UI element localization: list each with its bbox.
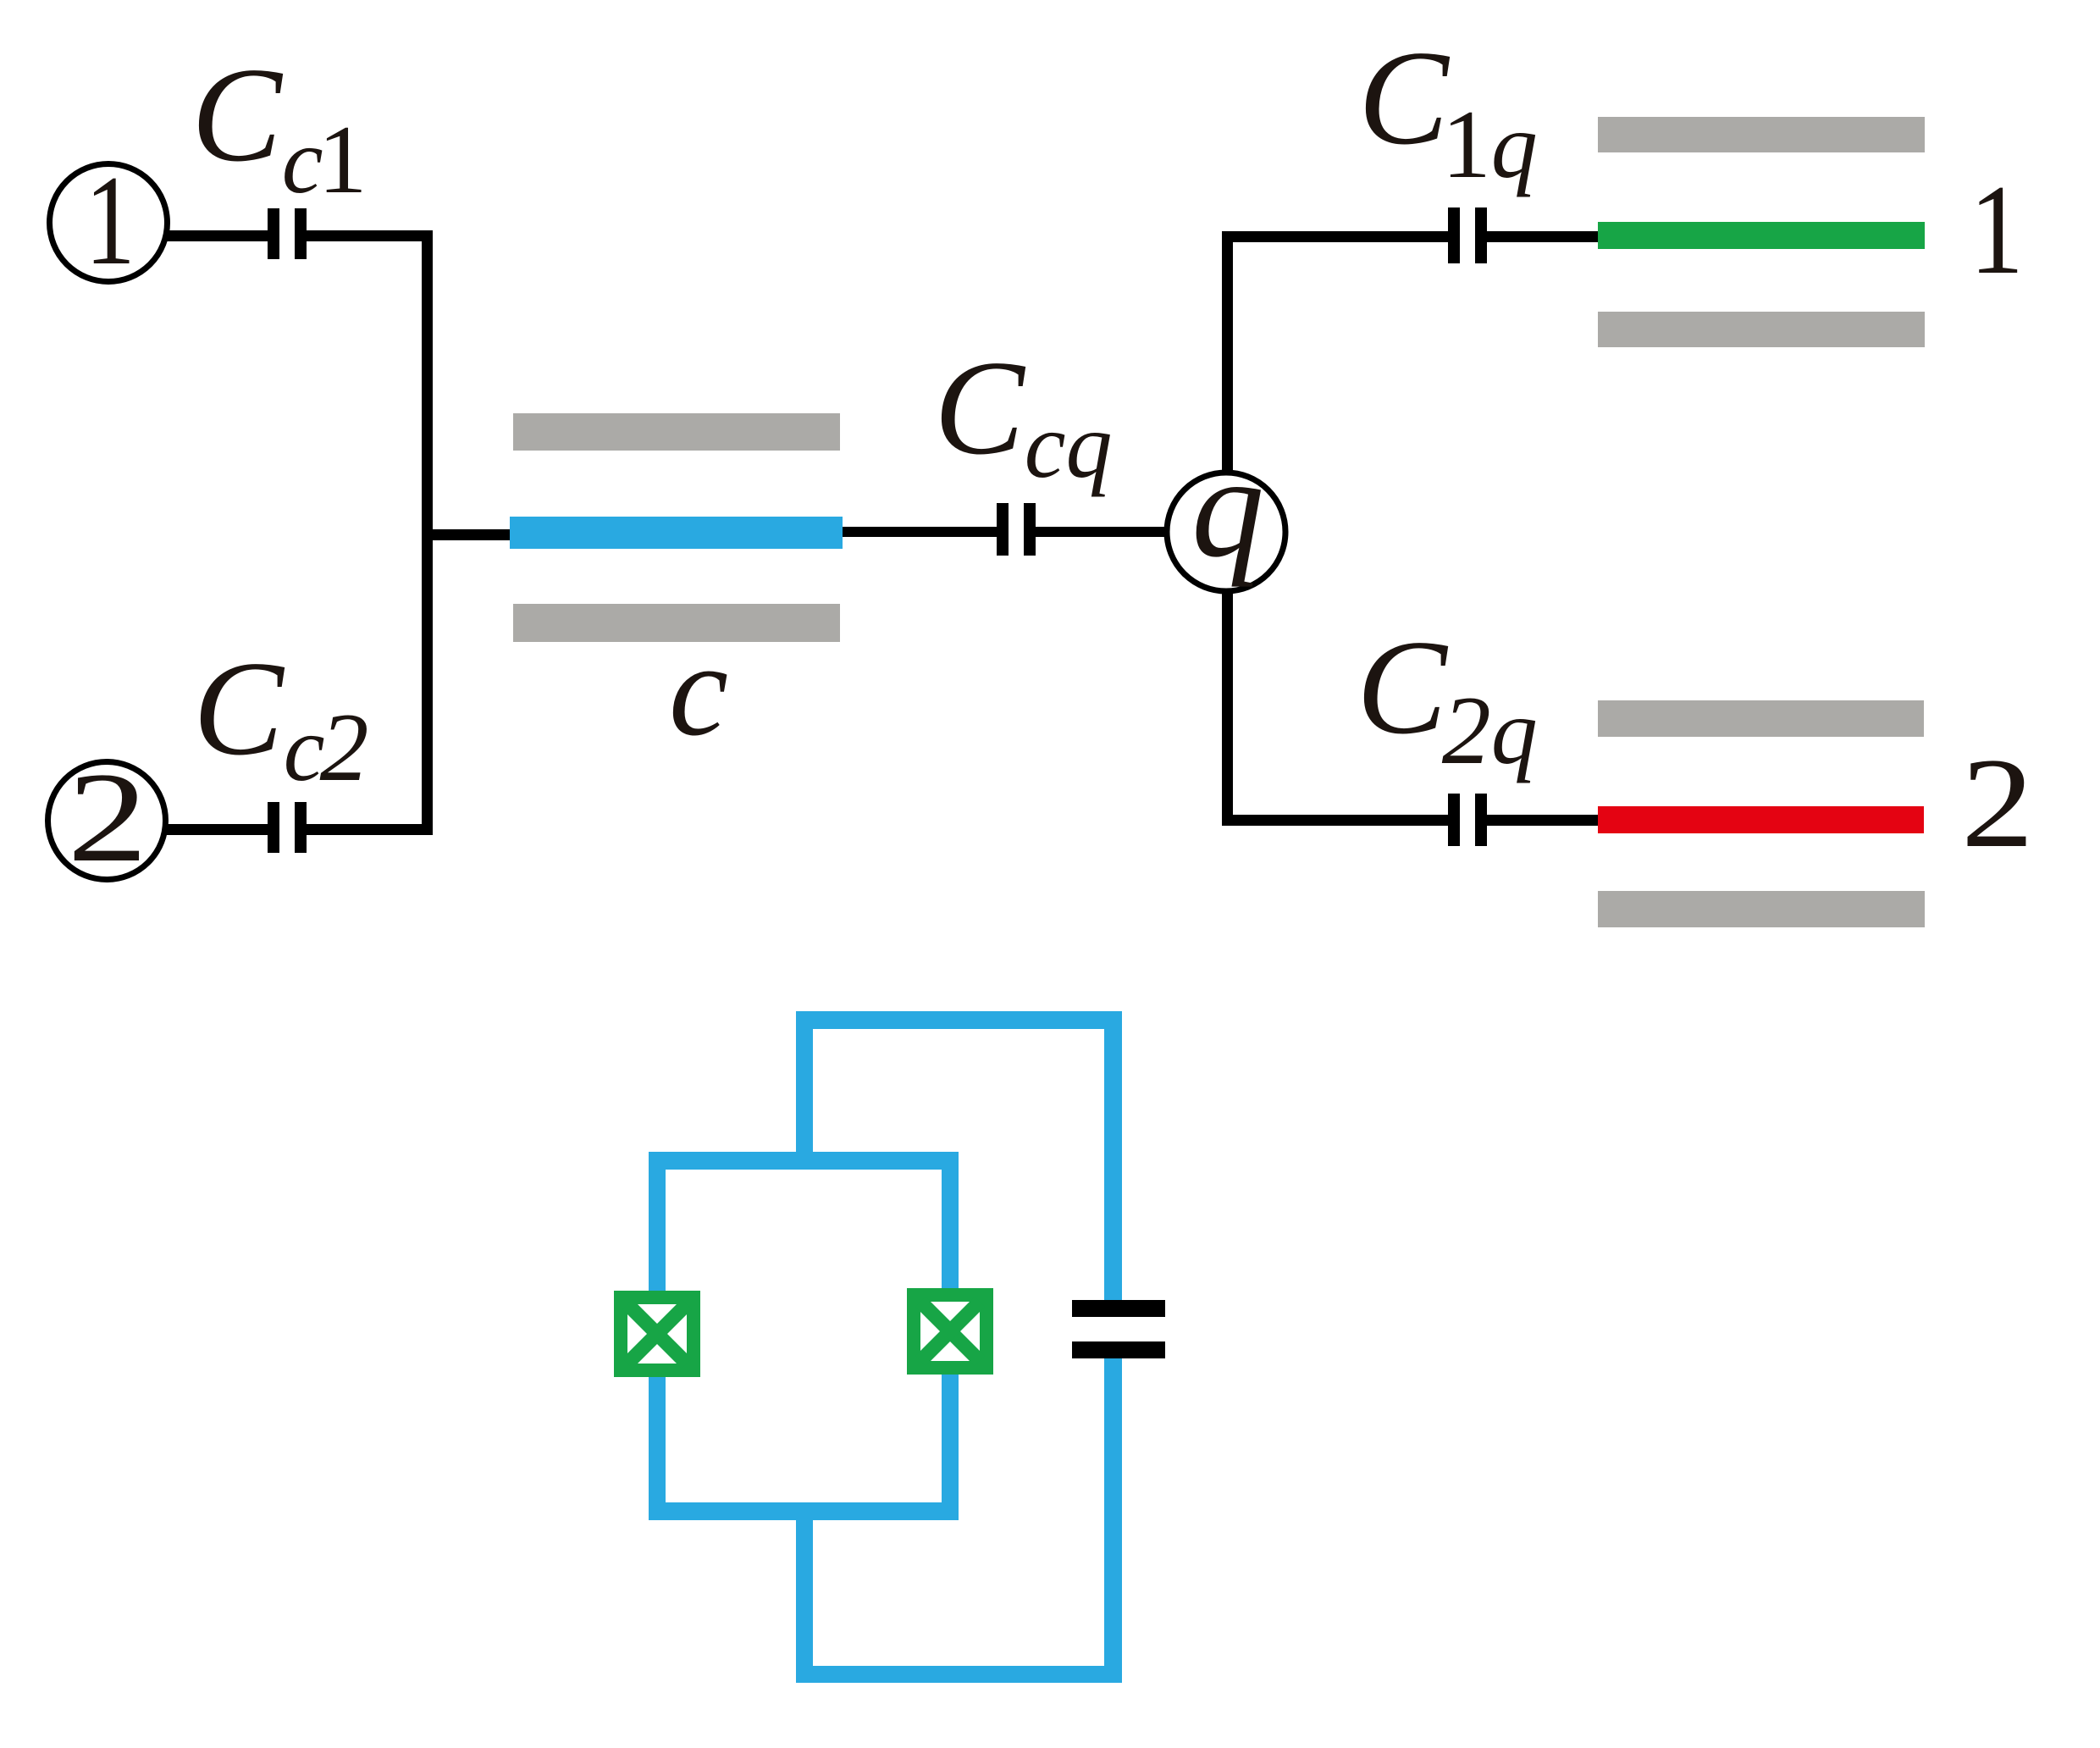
node q [1167, 427, 1285, 591]
svg-text:q: q [1191, 427, 1264, 588]
capacitor Cc1 [268, 208, 307, 259]
svg-text:2: 2 [1961, 732, 2034, 875]
qubit shunt capacitor [1072, 1300, 1165, 1358]
qubit loop outer right edge lower segment [1104, 1358, 1122, 1683]
wire node q up to row 1q [1222, 235, 1233, 477]
capacitor Cc2 [268, 802, 307, 853]
resonator 1 center conductor [1598, 222, 1925, 249]
resonator c center conductor [510, 517, 843, 549]
wire row2q corner to C2q [1222, 815, 1448, 826]
qubit loop outer left edge [796, 1011, 813, 1170]
wire C2q to resonator 2 [1487, 815, 1598, 826]
resonator 2 top ground plate [1598, 700, 1924, 737]
resonator 2 bottom ground plate [1598, 891, 1925, 927]
qubit loop outer right edge upper segment [1104, 1011, 1122, 1300]
svg-text:1: 1 [1970, 159, 2024, 301]
svg-text:C1q: C1q [1358, 22, 1538, 199]
svg-text:Ccq: Ccq [934, 332, 1113, 497]
svg-text:Cc1: Cc1 [191, 39, 367, 214]
wire Cc2 to left bus [307, 824, 433, 835]
svg-text:Cc2: Cc2 [193, 633, 369, 802]
qubit loop inner top edge [649, 1152, 959, 1170]
qubit loop outer bottom edge [796, 1666, 1122, 1683]
wire Ccq to node q [1036, 527, 1171, 537]
qubit loop bottom stub [796, 1520, 813, 1666]
resonator c top ground plate [513, 413, 840, 451]
port node 1 [50, 150, 168, 291]
capacitor C1q [1448, 207, 1487, 263]
resonator 1 top ground plate [1598, 117, 1925, 152]
wire left bus vertical [422, 230, 433, 835]
josephson junction left [614, 1291, 700, 1377]
qubit loop inner left edge [649, 1152, 666, 1520]
wire port2 to Cc2 [163, 824, 269, 835]
port node 2 [48, 747, 166, 889]
resonator 1 bottom ground plate [1598, 312, 1925, 347]
capacitor Ccq [997, 503, 1036, 556]
wire row1 corner to C1q [1222, 231, 1448, 242]
wire Cc1 to left bus [307, 230, 433, 241]
qubit loop inner bottom edge [649, 1502, 959, 1520]
svg-text:1: 1 [85, 150, 135, 291]
wire node q down to row 2q [1222, 589, 1233, 821]
josephson junction right [907, 1288, 993, 1375]
qubit loop outer top edge [796, 1011, 1122, 1029]
wire C1q to resonator 1 [1487, 231, 1598, 242]
capacitor C2q [1448, 794, 1487, 846]
resonator 2 center conductor [1598, 806, 1924, 833]
resonator c bottom ground plate [513, 604, 840, 642]
svg-text:c: c [669, 616, 728, 764]
wire resonator c to Ccq [843, 527, 997, 537]
wire port1 to Cc1 [163, 230, 269, 241]
wire bus stub to resonator c [428, 529, 511, 540]
qubit loop inner right edge [942, 1152, 959, 1520]
svg-text:2: 2 [67, 747, 147, 889]
svg-text:C2q: C2q [1357, 611, 1538, 785]
